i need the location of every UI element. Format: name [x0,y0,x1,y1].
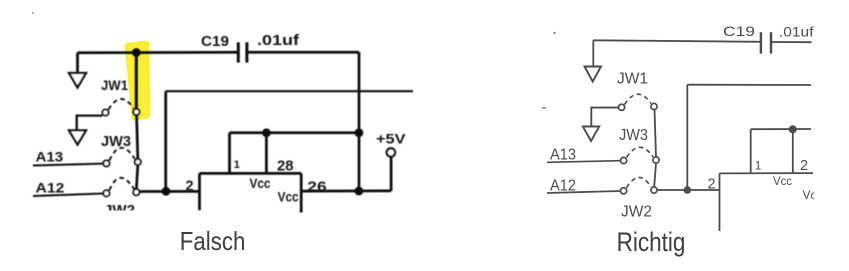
svg-text:26: 26 [307,179,326,196]
svg-text:JW3: JW3 [619,127,648,144]
svg-text:C19: C19 [201,34,229,50]
svg-text:A12: A12 [36,180,65,196]
svg-text:.01uf: .01uf [779,23,814,39]
svg-text:A12: A12 [550,178,576,195]
svg-text:C19: C19 [723,23,755,39]
svg-text:2: 2 [800,158,808,174]
svg-text:28: 28 [277,158,294,175]
svg-text:2: 2 [708,177,716,193]
svg-text:1: 1 [234,159,240,171]
svg-text:Vcc: Vcc [278,189,299,204]
svg-text:2: 2 [186,179,194,195]
svg-text:+5V: +5V [376,131,406,147]
svg-text:Vcc: Vcc [773,174,792,188]
svg-text:JW1: JW1 [617,71,648,88]
svg-text:1: 1 [755,159,762,173]
svg-text:Falsch: Falsch [180,226,246,256]
svg-text:A13: A13 [550,147,576,164]
svg-text:JW1: JW1 [101,77,128,93]
svg-text:Richtig: Richtig [617,227,686,257]
svg-text:JW3: JW3 [101,134,131,150]
svg-text:.01uf: .01uf [257,33,299,49]
svg-text:Vcc: Vcc [803,188,823,202]
svg-text:JW2: JW2 [621,204,652,221]
svg-text:A13: A13 [36,149,64,165]
svg-text:Vcc: Vcc [250,176,271,191]
svg-text:JW2: JW2 [104,202,135,219]
